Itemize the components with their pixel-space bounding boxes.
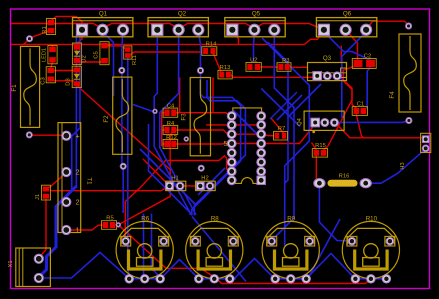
wire blue Q2 pad3 to via	[198, 32, 200, 68]
wire blue R8-R9 peak	[234, 259, 275, 279]
capacitor C3	[41, 67, 56, 85]
resistor R4	[163, 121, 178, 135]
wire diagonal to R7 right	[271, 118, 284, 133]
wire LED1 top stub	[52, 44, 54, 46]
IC U1 (DIP-16)	[224, 108, 266, 185]
resistor R14	[202, 42, 217, 56]
wire blue below via F2	[122, 169, 124, 214]
wire blue mid bundle third	[149, 124, 192, 214]
potentiometer R6	[116, 216, 173, 283]
resistor R3	[277, 58, 291, 71]
wire T1 pad4 to R5	[66, 225, 103, 230]
wire R14 to R13	[214, 54, 221, 72]
wire blue Q3 lower-left bundle 3	[288, 84, 321, 117]
wire J1 to H1	[50, 186, 169, 191]
via F4 top	[406, 23, 412, 29]
wire IC right to R7	[235, 134, 274, 136]
wire IC right to Q4	[235, 123, 315, 144]
via F3 bottom	[198, 165, 204, 171]
wire top red bus 2	[11, 30, 324, 45]
wire blue IC top-right diagonal	[261, 89, 300, 127]
wire IC bottom wrap	[125, 156, 231, 241]
svg-text:D2: D2	[82, 55, 88, 62]
wire Q3 pad3 steep diagonal to R15	[324, 77, 352, 150]
via F3 top	[198, 68, 204, 74]
svg-text:+: +	[76, 131, 80, 140]
capacitor C4	[163, 104, 178, 118]
fuse F3	[181, 78, 211, 156]
svg-text:R16: R16	[339, 173, 350, 179]
wire blue Q3 lower-left bundle 1	[270, 92, 297, 119]
wire blue R16 left to R10	[319, 186, 352, 241]
connector X1	[8, 248, 50, 287]
svg-text:1: 1	[76, 226, 80, 235]
wire short diagonal near H1	[143, 159, 170, 186]
wire R1 to Q1 pad1	[51, 16, 82, 27]
wire blue Q1 pad2 down	[103, 32, 114, 96]
wire T1 pad2 to J1	[47, 175, 64, 188]
wire vertical x179.7	[179, 78, 181, 113]
wire blue Q6 pad1 to C2	[324, 32, 371, 61]
wire red IC row2	[206, 124, 258, 126]
svg-text:R8: R8	[211, 216, 219, 223]
wire R4 row to IC pad3	[176, 130, 231, 134]
svg-text:R1: R1	[42, 26, 48, 33]
svg-text:LED1: LED1	[42, 48, 48, 62]
wire blue Q4 pad3 to via F4 bottom	[334, 121, 409, 123]
via small near R12	[184, 137, 188, 141]
svg-text:Q3: Q3	[323, 55, 332, 62]
wire blue bundle 1	[262, 38, 309, 246]
svg-text:J1: J1	[35, 194, 41, 200]
potentiometer R9	[262, 216, 319, 283]
resistor R11	[124, 46, 138, 65]
wire blue D2 column 1	[75, 35, 77, 188]
wire C5 to R11	[107, 46, 126, 49]
wire R5 via through R6 to R8	[118, 225, 216, 279]
wire R15 stub	[312, 143, 317, 150]
wire blue bundle 3	[268, 42, 289, 183]
wire C3-D3 row2	[53, 80, 74, 82]
diode D3	[65, 66, 81, 87]
wire R12 row to IC pad4	[176, 143, 231, 146]
wire U2 to R3	[260, 66, 278, 68]
svg-text:F3: F3	[181, 113, 188, 121]
via F4 bottom	[406, 118, 412, 124]
svg-text:R3: R3	[282, 58, 289, 64]
wire blue via F3 to IC feed 1	[192, 74, 241, 216]
wire bottom red bus to R10	[217, 279, 371, 284]
fuse F1	[11, 46, 40, 127]
svg-text:R10: R10	[366, 216, 378, 223]
wire R11 to R14 bus	[130, 52, 203, 56]
wire J1 to X1	[39, 199, 46, 258]
fuse F2	[103, 77, 132, 154]
potentiometer R8	[186, 216, 243, 283]
transistor Q2	[148, 11, 208, 37]
transistor Q1	[73, 11, 133, 37]
wire via F1 to T1 pad1	[32, 134, 62, 136]
svg-text:R11: R11	[132, 55, 138, 65]
svg-text:Q1: Q1	[99, 11, 108, 18]
wire Q6 pad2 to C2	[346, 30, 358, 60]
wire blue R11 column long	[128, 58, 130, 279]
svg-text:H2: H2	[201, 175, 208, 181]
wire Q5 pad1 down	[232, 32, 238, 45]
svg-text:F4: F4	[389, 91, 396, 99]
via small near R5	[116, 223, 120, 227]
wire blue Q2 pad1 path	[154, 32, 190, 215]
wire LED1 to C3	[51, 62, 53, 68]
svg-text:R15: R15	[315, 143, 326, 149]
svg-text:F2: F2	[103, 115, 110, 123]
wire D3 diagonal to mid	[78, 86, 171, 170]
wire blue thick leg to X1	[39, 186, 77, 278]
wire C2 to C1	[344, 67, 357, 109]
header H1	[166, 175, 186, 190]
wire blue C2 to C1 column	[363, 67, 370, 111]
wire blue Q2 pad2 path	[160, 32, 196, 215]
wire blue IC feed 2	[194, 80, 245, 216]
LED LED1	[42, 45, 58, 63]
wire top red bus 1	[11, 24, 324, 30]
wire R15 to R16	[316, 156, 319, 183]
wire R13 to Q3	[231, 75, 317, 78]
wire blue bundle 2	[271, 61, 294, 241]
wire R3 right	[290, 66, 308, 68]
header H2	[196, 175, 216, 190]
wire C3-D3 row1	[53, 70, 74, 72]
wire blue mid texture 1	[140, 149, 196, 205]
via F2 bottom	[120, 163, 126, 169]
svg-text:2: 2	[76, 168, 80, 177]
jumper J1	[35, 185, 51, 200]
svg-text:C5: C5	[94, 51, 100, 58]
wire via F4 bottom to H3	[338, 126, 422, 138]
wire blue T1 crossing	[64, 35, 80, 198]
wire blue R8 bottom row	[197, 278, 236, 280]
resistor R1	[42, 19, 56, 35]
svg-text:C4: C4	[167, 104, 175, 110]
wire blue X1 to R6	[44, 253, 130, 279]
wire C4 row to IC pad1	[176, 113, 231, 116]
wire blue R6 inner vertical 1	[143, 214, 145, 277]
svg-text:R13: R13	[220, 65, 231, 71]
svg-text:H3: H3	[400, 162, 406, 169]
svg-text:R12: R12	[166, 135, 177, 141]
via F1 bottom	[26, 132, 32, 138]
wire blue R6 bottom row	[127, 278, 163, 280]
svg-text:R7: R7	[278, 126, 285, 132]
transistor Q6	[316, 11, 376, 37]
wire Q6 pad3 to via F4 top	[366, 21, 409, 30]
resistor U2	[246, 58, 261, 72]
svg-text:2: 2	[76, 198, 80, 207]
svg-text:R9: R9	[287, 216, 295, 223]
wire blue R6 inner vertical 2	[152, 214, 159, 276]
capacitor C1	[352, 101, 367, 115]
svg-text:D3: D3	[65, 78, 71, 85]
resistor R12	[163, 135, 178, 149]
transformer T1	[58, 123, 93, 235]
wire H1-H2	[170, 185, 201, 187]
wire blue Q5 pad3 down	[273, 32, 275, 62]
svg-text:R14: R14	[206, 42, 217, 48]
svg-text:X1: X1	[8, 260, 14, 267]
wire red Q3 top stub	[340, 46, 342, 63]
wire via to R1	[31, 31, 49, 37]
fuse F4	[389, 34, 421, 112]
wire vertical x213	[212, 77, 214, 112]
wire blue R16 right to H3	[366, 149, 426, 183]
wire blue R9 right diagonal	[310, 219, 341, 276]
potentiometer R10	[342, 216, 399, 283]
via small near C4	[153, 109, 157, 113]
wire blue Q1 pad3 to via	[122, 32, 123, 68]
via F2 top	[119, 67, 125, 73]
svg-text:Q2: Q2	[178, 11, 187, 18]
wire Q1 pad1 to D2	[77, 33, 82, 45]
wire blue Q5 pad2 to U2	[253, 32, 256, 63]
wire blue small diag to via C4	[133, 105, 153, 112]
wire blue R8 diagonal	[192, 217, 246, 282]
wire red C1 to H3 line	[356, 115, 363, 138]
resistor R7	[274, 126, 288, 140]
svg-text:T1: T1	[86, 177, 93, 185]
svg-text:C1: C1	[357, 101, 364, 107]
wire blue R10 bottom row	[354, 278, 387, 280]
diode D2	[72, 43, 87, 65]
resistor R13	[218, 65, 232, 79]
capacitor C5	[94, 42, 110, 65]
svg-text:F1: F1	[11, 84, 18, 92]
svg-text:Q5: Q5	[252, 11, 261, 18]
svg-text:C2: C2	[364, 54, 371, 60]
wire R5 to via	[116, 224, 119, 226]
wire D2 to C5	[80, 61, 103, 63]
wire mid vertical to R5 via	[118, 131, 174, 225]
wire blue R9 bottom row	[273, 278, 308, 280]
wire blue R9-R10 peak	[306, 254, 355, 279]
wire blue IC interior diagonal	[233, 110, 262, 139]
resistor R15	[312, 143, 327, 157]
wire blue R6-R8 peak	[160, 260, 199, 279]
wire blue F2 crossing 1	[121, 73, 123, 164]
wire via to bus2	[24, 39, 30, 45]
wire SMD column left link	[162, 110, 165, 146]
transistor Q5	[225, 11, 285, 37]
svg-text:Q4: Q4	[297, 117, 303, 126]
via top-left	[27, 36, 33, 42]
svg-text:H1: H1	[171, 175, 178, 181]
svg-text:U2: U2	[250, 58, 257, 64]
svg-text:C3: C3	[41, 77, 47, 84]
header H3	[400, 133, 431, 169]
wire blue Q3 lower-left bundle 2	[277, 95, 302, 120]
resistor R5	[102, 216, 117, 230]
transistor Q4	[297, 111, 344, 133]
svg-text:Q6: Q6	[343, 11, 352, 18]
svg-text:R6: R6	[141, 216, 149, 223]
wire blue Q6 pad3 down	[342, 32, 366, 118]
wire blue H2 region diagonal	[198, 168, 225, 195]
capacitor C2	[352, 54, 376, 69]
transistor Q3	[308, 55, 347, 81]
svg-text:R5: R5	[106, 216, 113, 222]
svg-text:5: 5	[224, 141, 228, 148]
resistor R16	[314, 173, 372, 187]
svg-text:R4: R4	[167, 121, 175, 127]
